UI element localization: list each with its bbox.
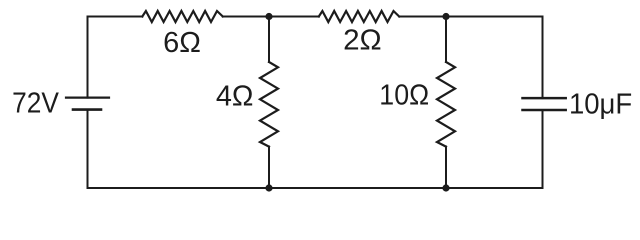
wire left side upper (to battery) [87, 17, 89, 98]
wire top-left segment [88, 16, 143, 18]
wire node A to 4Ω resistor [268, 17, 270, 63]
wire bottom rail [88, 187, 543, 189]
capacitor C1 bottom plate [523, 109, 566, 112]
node B junction dot (top, 10Ω) [442, 13, 449, 20]
svg-text:72V: 72V [12, 88, 59, 120]
svg-text:2Ω: 2Ω [343, 25, 382, 57]
svg-text:10Ω: 10Ω [379, 80, 429, 112]
node C junction dot (bottom, 4Ω) [265, 184, 272, 191]
battery V1 short plate (-) [73, 108, 101, 111]
wire right side upper (to capacitor) [542, 17, 544, 99]
wire top-right segment [399, 16, 542, 18]
svg-text:6Ω: 6Ω [163, 27, 201, 59]
resistor 4Ω zigzag [260, 62, 278, 147]
battery V1 long plate (+) [66, 96, 109, 98]
wire left side lower (battery to bottom) [87, 110, 89, 188]
svg-text:4Ω: 4Ω [216, 80, 254, 112]
resistor 2Ω zigzag [319, 11, 399, 22]
node D junction dot (bottom, 10Ω) [442, 184, 449, 191]
wire right side lower (capacitor to bottom) [542, 110, 544, 188]
wire 4Ω resistor to bottom rail [268, 147, 270, 188]
capacitor C1 top plate [523, 97, 566, 100]
wire 10Ω resistor to bottom rail [445, 147, 447, 188]
wire top-middle segment [223, 16, 319, 18]
resistor 10Ω zigzag [437, 62, 455, 147]
wire node B to 10Ω resistor [445, 17, 447, 63]
resistor 6Ω zigzag [142, 11, 223, 22]
node A junction dot (top, 4Ω) [265, 13, 272, 20]
svg-text:10μF: 10μF [569, 89, 632, 121]
